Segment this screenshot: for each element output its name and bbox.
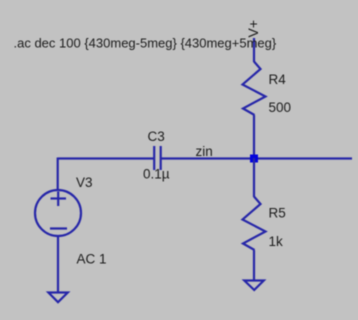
svg-text:0.1µ: 0.1µ — [143, 167, 170, 182]
svg-text:1k: 1k — [269, 234, 284, 249]
svg-text:.ac dec 100 {430meg-5meg} {430: .ac dec 100 {430meg-5meg} {430meg+5meg} — [14, 36, 277, 51]
capacitor C3 — [154, 146, 161, 170]
svg-text:AC 1: AC 1 — [77, 252, 107, 267]
svg-text:V3: V3 — [76, 175, 93, 190]
ground right — [244, 281, 263, 291]
svg-text:V+: V+ — [245, 20, 261, 38]
wire V3 riser vertical — [57, 158, 59, 192]
svg-text:R4: R4 — [269, 72, 287, 87]
wire junction to R5 — [253, 158, 255, 197]
resistor R5 — [243, 197, 266, 251]
voltage source V3 circle — [35, 190, 81, 236]
ground left — [48, 293, 67, 303]
wire R4 to junction — [253, 115, 255, 159]
resistor R4 — [243, 62, 266, 116]
wire main horizontal right — [161, 157, 352, 159]
wire V3 to ground — [57, 236, 59, 293]
wire flag to R4 — [253, 38, 255, 62]
V3 minus sign — [50, 227, 67, 229]
svg-text:R5: R5 — [269, 206, 286, 221]
V3 plus sign — [51, 192, 67, 207]
svg-text:C3: C3 — [148, 129, 165, 144]
wire R5 to ground — [253, 250, 255, 281]
svg-text:zin: zin — [196, 144, 213, 159]
svg-text:500: 500 — [269, 100, 292, 115]
wire main horizontal left — [58, 157, 154, 159]
junction node — [250, 155, 258, 163]
